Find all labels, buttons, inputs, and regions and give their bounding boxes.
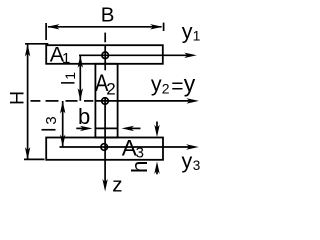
svg-text:B: B [101,4,115,27]
svg-text:2: 2 [106,79,115,98]
web A2 outline [95,64,117,138]
centroid C2 circle [102,98,109,105]
svg-text:=: = [171,75,183,98]
H dimension [24,44,48,160]
svg-text:y: y [184,71,196,97]
svg-text:3: 3 [136,145,144,162]
b dimension [76,126,140,131]
z axis vertical centerline [102,33,107,192]
svg-text:l3: l3 [40,116,61,132]
y1 axis [79,53,197,58]
svg-text:z: z [112,174,122,197]
top flange A1 outline [46,45,163,64]
svg-text:1: 1 [193,28,201,44]
svg-text:1: 1 [62,50,70,67]
h dimension [154,122,159,175]
l1 dimension [78,55,83,101]
svg-text:2: 2 [162,80,170,96]
svg-text:h: h [127,160,152,173]
svg-text:A: A [122,136,137,161]
bottom flange A3 outline [46,138,163,160]
svg-text:H: H [6,91,28,105]
svg-text:y: y [182,20,193,44]
B dimension [46,23,164,40]
y3 axis [60,144,199,149]
svg-text:y: y [151,72,162,96]
svg-text:y: y [182,149,193,173]
centroid C3 circle [101,144,108,151]
svg-text:b: b [78,104,90,129]
svg-text:3: 3 [193,158,201,173]
y2 axis dash-dot centroid axis [31,98,200,103]
svg-text:l1: l1 [58,72,78,85]
l3 dimension [60,101,65,147]
centroid C1 circle [102,52,109,59]
